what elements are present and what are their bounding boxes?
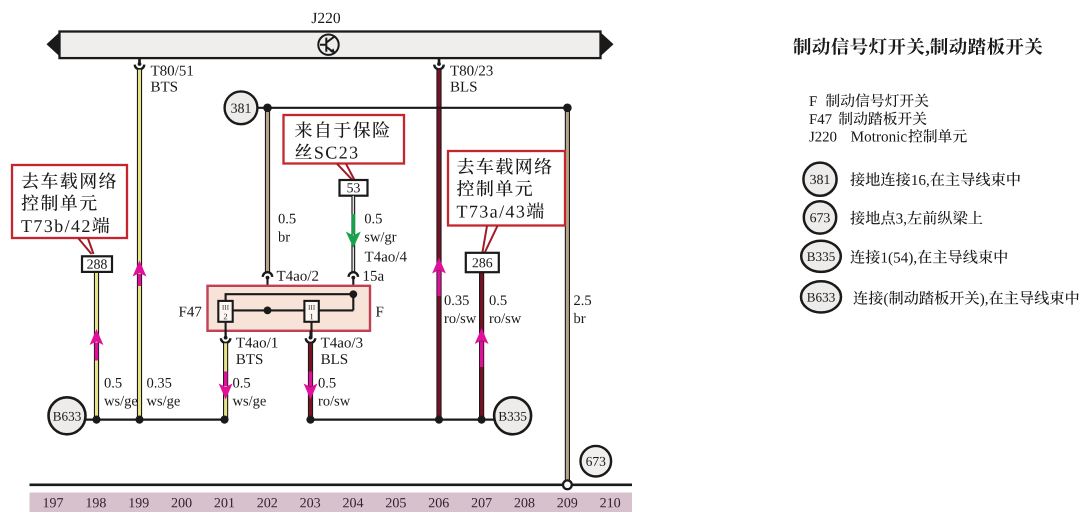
terminal box 288 bbox=[82, 256, 112, 272]
ground symbol 381 bbox=[225, 91, 258, 124]
flow arrow up track 207 bbox=[475, 328, 489, 367]
junction 206 bbox=[435, 416, 443, 424]
label 2.5 br bbox=[574, 295, 592, 323]
control unit J220 label bbox=[312, 13, 340, 24]
label 673 bbox=[586, 457, 605, 466]
wire br track 202 bbox=[265, 108, 270, 272]
flow arrow down track 203 bbox=[304, 372, 318, 400]
ground symbol 673 bbox=[581, 446, 612, 477]
label 288 bbox=[87, 259, 107, 268]
connection line B633 bbox=[85, 419, 225, 421]
terminal box 53 bbox=[340, 180, 368, 196]
junction 207 bbox=[478, 416, 486, 424]
label 286 bbox=[473, 258, 493, 267]
wire sw/gr track 204 bbox=[351, 196, 355, 272]
legend J220 bbox=[809, 129, 967, 143]
label F bbox=[376, 307, 383, 317]
track numbers bbox=[44, 498, 620, 507]
label 0.35 ro/sw bbox=[444, 295, 476, 323]
junction inside box (15a feed) bbox=[349, 290, 357, 298]
label T4ao/3 / BLS bbox=[321, 338, 363, 365]
wire ws/ge track 198 bbox=[94, 272, 99, 419]
label 0.5 ro/sw (207) bbox=[489, 295, 521, 323]
label T80/51 / BTS bbox=[151, 66, 193, 92]
label 0.5 ws/ge (198) bbox=[104, 378, 137, 409]
wire ro/sw track 207 bbox=[479, 272, 484, 419]
callout pointer to 288 bbox=[79, 239, 94, 255]
flow arrow up track 206 bbox=[432, 258, 446, 297]
switch unit F/F47 box bbox=[208, 286, 371, 331]
label 0.5 br bbox=[278, 214, 296, 242]
callout: from fuse SC23 bbox=[284, 115, 405, 164]
legend symbol 381 bbox=[803, 163, 836, 196]
node line from 381 bbox=[258, 107, 568, 109]
legend text 673 bbox=[850, 211, 982, 226]
control unit J220 bar bbox=[47, 32, 614, 59]
flow arrow down track 201 bbox=[219, 372, 233, 400]
wire ro/sw track 203 bbox=[308, 343, 313, 419]
legend title bbox=[794, 38, 1043, 57]
connection symbol B335 bbox=[494, 397, 531, 434]
label T80/23 / BLS bbox=[450, 66, 492, 92]
label 381 bbox=[231, 104, 250, 113]
legend symbol 673 bbox=[804, 201, 836, 233]
callout: to body network control unit T73a/43 bbox=[448, 151, 565, 226]
internal wiring bbox=[226, 294, 354, 338]
transistor symbol inside J220 bbox=[318, 35, 338, 55]
label B633 bbox=[53, 412, 81, 421]
label 53 bbox=[347, 183, 360, 192]
callout pointer to 286 bbox=[483, 226, 498, 252]
bottom rail bbox=[30, 483, 633, 486]
wire ro/sw track 206 bbox=[436, 70, 441, 420]
terminal box 286 bbox=[466, 253, 499, 272]
connector T4ao/1 bbox=[221, 331, 230, 343]
label 0.35 ws/ge (199) bbox=[147, 378, 180, 409]
legend text B633 bbox=[854, 291, 1079, 307]
ground terminal (open circle) bbox=[563, 480, 572, 489]
legend text 381 bbox=[850, 172, 1020, 187]
legend F bbox=[809, 93, 928, 107]
callout: to body network control unit T73b/42 bbox=[12, 165, 127, 238]
legend symbol B335 bbox=[801, 241, 841, 272]
legend text B335 bbox=[851, 250, 1008, 266]
wire ws/ge track 199 bbox=[137, 70, 142, 420]
label B335 bbox=[499, 412, 527, 421]
junction 203 bbox=[306, 416, 314, 424]
connector T80/23 bbox=[434, 59, 443, 70]
connector T4ao/3 bbox=[306, 331, 315, 343]
connector T80/51 bbox=[135, 59, 144, 69]
label F47 bbox=[179, 307, 202, 317]
track number strip bbox=[30, 493, 633, 513]
connector T4ao/2 bbox=[263, 272, 272, 310]
junction 201 bbox=[220, 416, 228, 424]
switch contact F47/2 bbox=[218, 301, 232, 322]
junction at track 209 bbox=[563, 104, 572, 113]
wire ws/ge track 201 bbox=[223, 343, 228, 419]
label 0.5 sw/gr bbox=[365, 214, 397, 245]
junction 199 bbox=[135, 416, 143, 424]
label 0.5 ws/ge (201) bbox=[233, 378, 266, 409]
junction at track 202 bbox=[263, 104, 272, 113]
junction inside box (T4ao/2) bbox=[264, 307, 272, 315]
label T4ao/1 / BTS bbox=[236, 338, 277, 365]
label T4ao/4 / 15a bbox=[364, 252, 407, 281]
wire br ground track 209 bbox=[565, 108, 570, 483]
legend F47 bbox=[809, 112, 926, 126]
label T4ao/2 bbox=[277, 271, 318, 281]
flow arrow up track 198 bbox=[90, 329, 104, 361]
flow arrow up track 199 bbox=[133, 261, 147, 287]
junction 198 bbox=[92, 416, 100, 424]
green current-flow arrow bbox=[346, 214, 361, 248]
switch contact F/1 bbox=[304, 301, 318, 322]
connector T4ao/4 15a bbox=[349, 272, 358, 294]
legend symbol B633 bbox=[801, 281, 841, 312]
connection line B335 bbox=[311, 419, 495, 421]
callout pointer to 53 bbox=[337, 164, 354, 180]
label 0.5 ro/sw (203) bbox=[318, 378, 350, 406]
connection symbol B633 bbox=[49, 397, 86, 434]
